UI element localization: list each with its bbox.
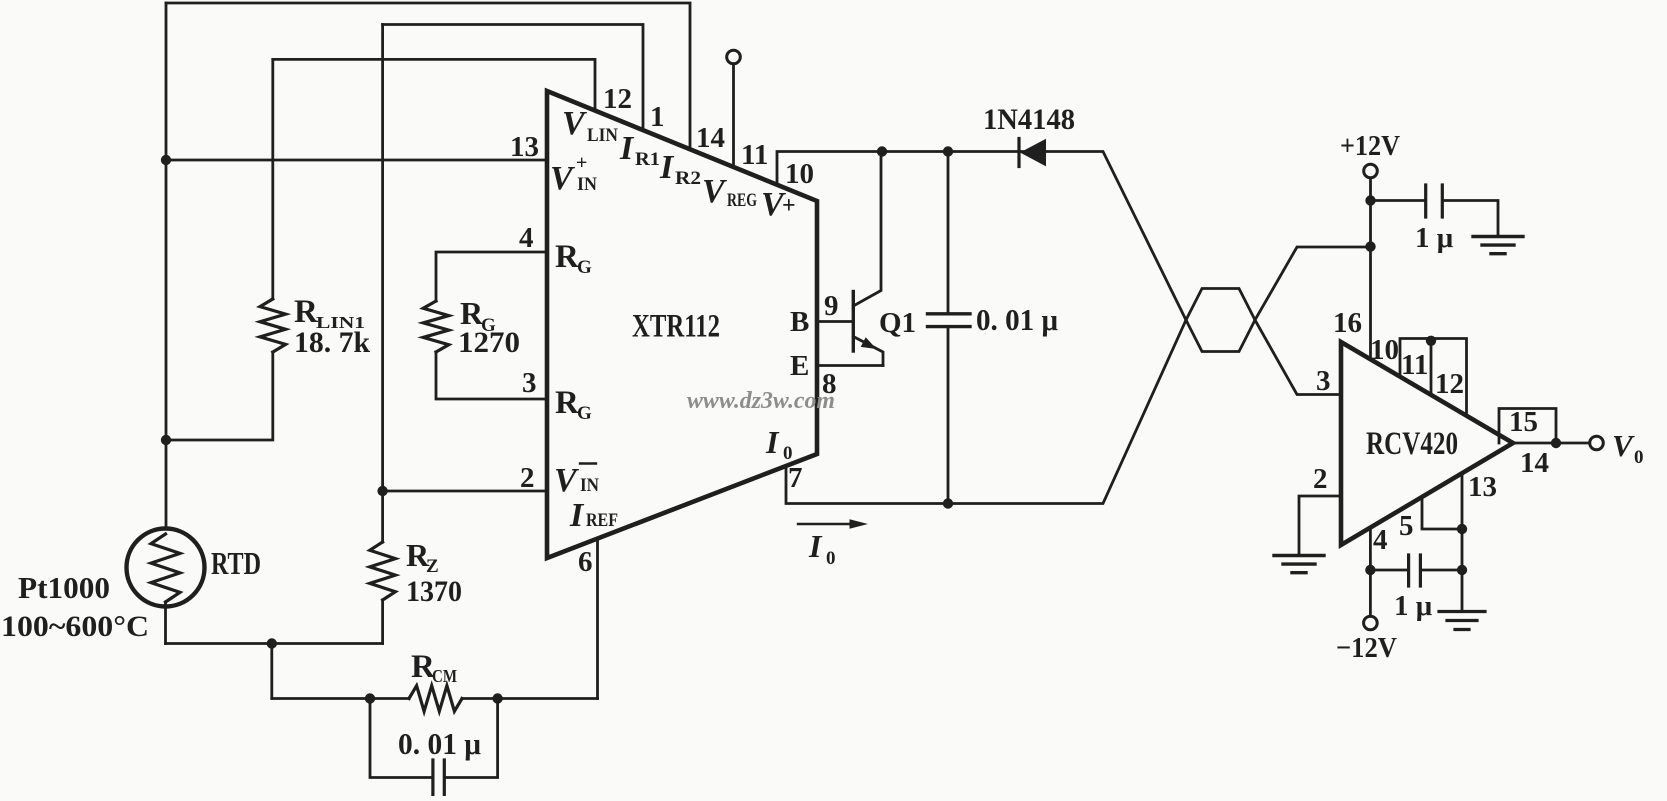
svg-text:1370: 1370 (406, 575, 462, 608)
svg-text:Pt1000: Pt1000 (18, 570, 110, 605)
svg-text:E: E (790, 350, 809, 382)
svg-text:V: V (550, 160, 575, 197)
svg-text:LIN: LIN (587, 125, 618, 146)
svg-text:+: + (576, 152, 587, 174)
svg-text:+: + (782, 193, 796, 219)
svg-text:100~600°C: 100~600°C (1, 610, 149, 643)
svg-text:−12V: −12V (1336, 632, 1397, 664)
svg-text:G: G (577, 257, 592, 278)
svg-text:I: I (659, 149, 675, 186)
svg-text:10: 10 (785, 158, 814, 190)
svg-text:0. 01 μ: 0. 01 μ (976, 302, 1058, 337)
svg-text:RCV420: RCV420 (1366, 426, 1458, 462)
svg-text:CM: CM (432, 666, 457, 686)
svg-text:RTD: RTD (211, 545, 261, 581)
svg-text:XTR112: XTR112 (632, 309, 720, 345)
svg-text:5: 5 (1399, 510, 1414, 542)
svg-text:R2: R2 (675, 168, 701, 189)
svg-text:REF: REF (586, 510, 618, 531)
svg-text:www.dz3w.com: www.dz3w.com (687, 388, 835, 414)
svg-text:1270: 1270 (458, 326, 520, 359)
svg-text:13: 13 (510, 131, 539, 163)
svg-text:B: B (790, 306, 809, 338)
svg-text:14: 14 (696, 122, 725, 154)
svg-text:G: G (577, 403, 592, 424)
svg-text:11: 11 (741, 139, 768, 171)
svg-text:11: 11 (1401, 349, 1428, 381)
svg-text:13: 13 (1468, 471, 1497, 503)
svg-text:3: 3 (522, 367, 537, 399)
svg-text:I: I (765, 424, 780, 460)
svg-text:0: 0 (826, 548, 836, 569)
svg-text:9: 9 (824, 290, 839, 322)
svg-text:1: 1 (650, 101, 665, 133)
svg-text:0: 0 (783, 443, 793, 464)
svg-text:15: 15 (1509, 406, 1538, 438)
svg-text:V: V (562, 105, 587, 142)
svg-text:10: 10 (1370, 334, 1399, 366)
svg-text:2: 2 (520, 462, 535, 494)
svg-text:IN: IN (580, 475, 599, 496)
svg-text:IN: IN (577, 174, 597, 195)
svg-text:2: 2 (1313, 463, 1328, 495)
svg-text:+12V: +12V (1340, 130, 1400, 162)
svg-text:Z: Z (426, 556, 439, 577)
svg-text:16: 16 (1333, 307, 1362, 339)
svg-text:REG: REG (727, 190, 757, 211)
svg-text:12: 12 (603, 83, 632, 115)
svg-text:0: 0 (1634, 447, 1644, 468)
svg-text:0. 01 μ: 0. 01 μ (398, 726, 481, 761)
svg-text:I: I (569, 497, 585, 534)
svg-text:3: 3 (1316, 365, 1331, 397)
svg-text:1N4148: 1N4148 (983, 103, 1075, 136)
svg-text:1 μ: 1 μ (1415, 222, 1454, 254)
svg-text:V: V (554, 462, 579, 499)
svg-text:V: V (1612, 428, 1635, 463)
svg-text:I: I (808, 528, 823, 564)
svg-text:I: I (619, 130, 635, 167)
svg-text:V: V (702, 173, 727, 210)
svg-text:7: 7 (788, 462, 803, 494)
svg-text:4: 4 (519, 222, 534, 254)
svg-text:4: 4 (1373, 524, 1388, 556)
svg-text:1 μ: 1 μ (1394, 590, 1433, 622)
svg-text:14: 14 (1520, 447, 1549, 479)
svg-text:18. 7k: 18. 7k (294, 326, 370, 359)
svg-text:6: 6 (578, 546, 593, 578)
svg-text:Q1: Q1 (879, 307, 916, 339)
svg-text:12: 12 (1435, 368, 1464, 400)
svg-text:R1: R1 (635, 149, 660, 170)
